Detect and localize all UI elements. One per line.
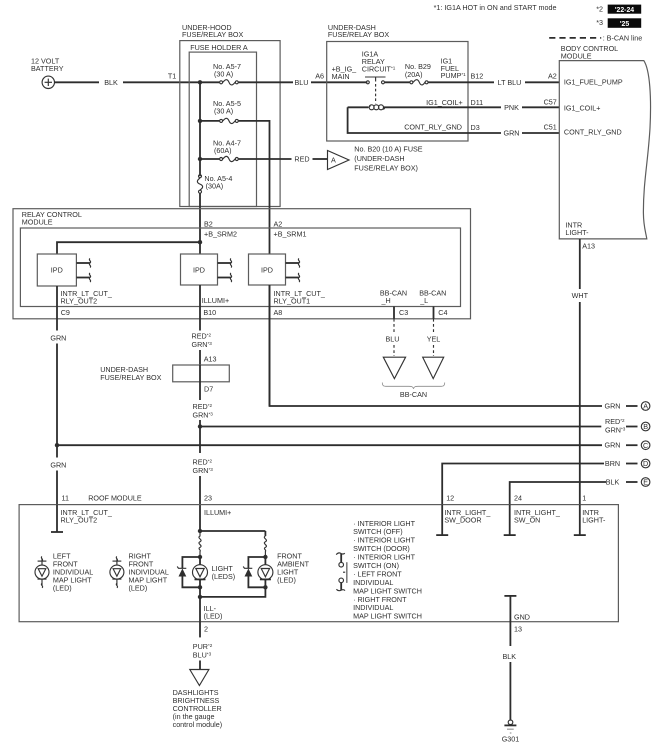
svg-text:E: E [643, 478, 648, 487]
svg-text:B10: B10 [203, 308, 216, 317]
LED L2 FRONT AMBIENT LIGHT [264, 557, 266, 565]
svg-text:A13: A13 [582, 242, 595, 251]
svg-text:LIGHT-: LIGHT- [582, 516, 606, 525]
connector arrow A (to No. B20 fuse) [328, 151, 350, 170]
svg-text:FUSE/RELAY BOX: FUSE/RELAY BOX [328, 30, 389, 39]
svg-text:GRN: GRN [50, 461, 66, 470]
IPD U1 left [37, 254, 76, 286]
dashed B-CAN L wire YEL [433, 319, 435, 334]
zener diode D1 [182, 557, 200, 568]
svg-text:'22-24: '22-24 [615, 7, 634, 14]
svg-text:(UNDER-DASH: (UNDER-DASH [354, 154, 404, 163]
lamp left front individual map light (LED) [41, 557, 42, 562]
dashed B-CAN H wire BLU [393, 319, 395, 334]
relay control module outer box [13, 209, 471, 319]
svg-text:(LED): (LED) [277, 576, 296, 585]
IPD U3 right [249, 254, 286, 285]
wire fuse A5-7 to BLU [239, 81, 293, 83]
svg-text:(LED): (LED) [53, 584, 72, 593]
svg-text:A: A [331, 156, 336, 165]
wire A13 WHT down to roof module pin 1 [579, 239, 581, 289]
svg-text:D: D [643, 459, 648, 468]
svg-text:RLY_OUT1: RLY_OUT1 [274, 297, 311, 306]
svg-text:B2: B2 [204, 220, 213, 229]
svg-text:IG1_COIL+: IG1_COIL+ [426, 98, 463, 107]
svg-text:RLY_OUT2: RLY_OUT2 [61, 297, 98, 306]
svg-text:RED: RED [294, 155, 309, 164]
svg-text:D7: D7 [204, 385, 213, 394]
svg-text:ILLUMI+: ILLUMI+ [202, 296, 229, 305]
svg-text:GRN: GRN [605, 402, 621, 411]
svg-text:RLY_OUT2: RLY_OUT2 [61, 516, 98, 525]
svg-text:C57: C57 [544, 98, 557, 107]
node B line junction [198, 424, 202, 428]
svg-text:BRN: BRN [605, 459, 620, 468]
LED L1 LIGHT (LEDS) [199, 557, 201, 565]
line B RED*2/GRN*3 to connector B [200, 426, 601, 428]
line C GRN to connector C [57, 444, 602, 446]
svg-text:(LEDS): (LEDS) [212, 572, 236, 581]
svg-text:+B_SRM1: +B_SRM1 [274, 230, 307, 239]
svg-text:C: C [643, 441, 648, 450]
pin C4 B-CAN L stub [433, 307, 435, 319]
relay control module inner box [20, 228, 460, 307]
ground G301 [508, 720, 513, 725]
svg-text:GRN: GRN [50, 334, 66, 343]
svg-text:GRN: GRN [504, 129, 520, 138]
svg-text:IG1_FUEL_PUMP: IG1_FUEL_PUMP [564, 78, 623, 87]
svg-text:*1: IG1A HOT in ON and START m: *1: IG1A HOT in ON and START mode [434, 3, 557, 12]
brace BB-CAN [382, 383, 444, 389]
svg-text:2: 2 [204, 625, 208, 634]
svg-text:*2: *2 [596, 5, 603, 14]
svg-text:BATTERY: BATTERY [31, 64, 64, 73]
node C line junction [55, 443, 59, 447]
svg-text:G301: G301 [502, 735, 520, 744]
lamp right front individual map light (LED) [116, 557, 117, 562]
arrow BB-CAN H [383, 357, 405, 378]
svg-text:C51: C51 [544, 123, 557, 132]
svg-text:BB-CAN: BB-CAN [400, 390, 427, 399]
node T1 junction [198, 80, 202, 84]
svg-text:13: 13 [514, 625, 522, 634]
svg-text:C4: C4 [438, 308, 447, 317]
svg-text:B12: B12 [471, 72, 484, 81]
wire fuse A4-7 to RED [239, 158, 292, 160]
svg-text:BLU: BLU [386, 335, 400, 344]
svg-text:FUSE HOLDER A: FUSE HOLDER A [190, 43, 248, 52]
svg-text:: B-CAN line: : B-CAN line [603, 33, 643, 42]
line D BRN to connector D [442, 464, 604, 505]
wire IPD3 bottom to A8 [269, 285, 271, 406]
svg-text:ILLUMI+: ILLUMI+ [204, 508, 231, 517]
svg-text:(30A): (30A) [206, 182, 224, 191]
bus A5-4 down to B2 [199, 194, 201, 255]
svg-text:+B_SRM2: +B_SRM2 [204, 230, 237, 239]
svg-text:(30 A): (30 A) [214, 106, 233, 115]
arrow to dashlights controller [190, 670, 209, 686]
resistor R1 (LED limiter) [199, 531, 201, 557]
resistor R2 (ambient limiter) [264, 536, 266, 557]
node A4-7 junction [198, 157, 202, 161]
svg-text:BLK: BLK [503, 652, 517, 661]
wire fuse B29 to box edge [428, 81, 468, 83]
svg-text:(20A): (20A) [405, 70, 423, 79]
svg-text:A2: A2 [548, 72, 557, 81]
svg-text:SW_ON: SW_ON [514, 516, 540, 525]
svg-text:IPD: IPD [51, 266, 63, 275]
node LED2 top [263, 555, 267, 559]
svg-text:MODULE: MODULE [22, 218, 53, 227]
wire A8 to line A corner [270, 285, 603, 406]
svg-text:CIRCUIT*1: CIRCUIT*1 [362, 65, 396, 74]
svg-text:12: 12 [446, 494, 454, 503]
svg-text:GRN: GRN [605, 441, 621, 450]
svg-text:IG1_COIL+: IG1_COIL+ [564, 104, 601, 113]
svg-text:A13: A13 [204, 355, 217, 364]
svg-text:MODULE: MODULE [561, 52, 592, 61]
svg-text:C3: C3 [399, 308, 408, 317]
wire branch to left IPD [57, 242, 200, 254]
svg-text:D11: D11 [471, 98, 484, 107]
pin GND 13 [504, 595, 516, 597]
wire IPD2 bottom to B10 [199, 285, 201, 331]
legend B-CAN dashed line [549, 37, 601, 39]
svg-text:C9: C9 [61, 308, 70, 317]
svg-text:FUSE/RELAY BOX: FUSE/RELAY BOX [182, 30, 243, 39]
svg-text:A: A [643, 402, 648, 411]
node LED1 top [198, 555, 202, 559]
wire battery to T1 (BLK) [55, 81, 100, 83]
svg-text:BLK: BLK [104, 78, 118, 87]
svg-text:WHT: WHT [572, 291, 589, 300]
svg-text:_L: _L [419, 296, 428, 305]
svg-text:A2: A2 [274, 220, 283, 229]
svg-text:(LED): (LED) [129, 584, 148, 593]
pin C3 B-CAN H stub [393, 307, 395, 319]
svg-text:LT BLU: LT BLU [498, 78, 522, 87]
svg-text:1: 1 [582, 494, 586, 503]
svg-text:B: B [643, 422, 648, 431]
IPD U2 middle [181, 254, 218, 285]
svg-text:control module): control module) [173, 720, 223, 729]
svg-text:24: 24 [514, 494, 522, 503]
svg-text:YEL: YEL [427, 335, 441, 344]
relay coil [348, 106, 368, 108]
wire coil to IG1_COIL+ D11 [384, 106, 469, 108]
svg-text:LIGHT-: LIGHT- [565, 228, 589, 237]
svg-text:PNK: PNK [504, 103, 519, 112]
svg-text:FUSE/RELAY BOX): FUSE/RELAY BOX) [354, 164, 418, 173]
wire coil left leg to CONT_RLY_GND D3 [348, 107, 468, 133]
line E BLK to connector E [510, 482, 606, 505]
svg-text:BLU: BLU [295, 78, 309, 87]
svg-text:(60A): (60A) [214, 146, 232, 155]
bus wire from T1 node down [199, 82, 201, 176]
svg-text:No. B20 (10 A) FUSE: No. B20 (10 A) FUSE [354, 145, 423, 154]
wire fuse A5-5 right then down (+B_SRM1 feed) [239, 121, 270, 254]
arrow BB-CAN L [423, 357, 444, 378]
svg-text:T1: T1 [168, 72, 176, 81]
svg-text:23: 23 [204, 494, 212, 503]
svg-text:IPD: IPD [193, 266, 205, 275]
svg-text:SW_DOOR: SW_DOOR [444, 516, 481, 525]
svg-text:(30 A): (30 A) [214, 70, 233, 79]
zener diode D2 [248, 557, 265, 568]
svg-text:IPD: IPD [261, 266, 273, 275]
LED circuit: branch node [198, 529, 202, 533]
svg-text:FUSE/RELAY BOX: FUSE/RELAY BOX [100, 373, 161, 382]
svg-text:MAIN: MAIN [332, 72, 350, 81]
svg-text:A8: A8 [274, 308, 283, 317]
svg-text:BLK: BLK [606, 478, 620, 487]
svg-text:'25: '25 [620, 21, 629, 28]
node A5-5 junction [198, 119, 202, 123]
svg-text:ROOF MODULE: ROOF MODULE [88, 494, 142, 503]
svg-text:CONT_RLY_GND: CONT_RLY_GND [404, 123, 462, 132]
svg-text:MAP LIGHT SWITCH: MAP LIGHT SWITCH [353, 612, 422, 621]
svg-text:(LED): (LED) [204, 612, 223, 621]
svg-text:11: 11 [62, 494, 69, 503]
switch S1/S2 (interior light switches) [336, 553, 345, 555]
node LED2 bottom [263, 585, 267, 589]
wire IPD1 bottom to C9 [56, 286, 58, 331]
svg-text:D3: D3 [471, 123, 480, 132]
svg-text:CONT_RLY_GND: CONT_RLY_GND [564, 128, 622, 137]
node LED1 bottom [198, 585, 202, 589]
svg-text:A6: A6 [315, 72, 324, 81]
wire LED bottoms join [199, 587, 201, 621]
svg-text:GND: GND [514, 613, 530, 622]
svg-text:_H: _H [381, 296, 391, 305]
svg-text:*3: *3 [596, 18, 603, 27]
